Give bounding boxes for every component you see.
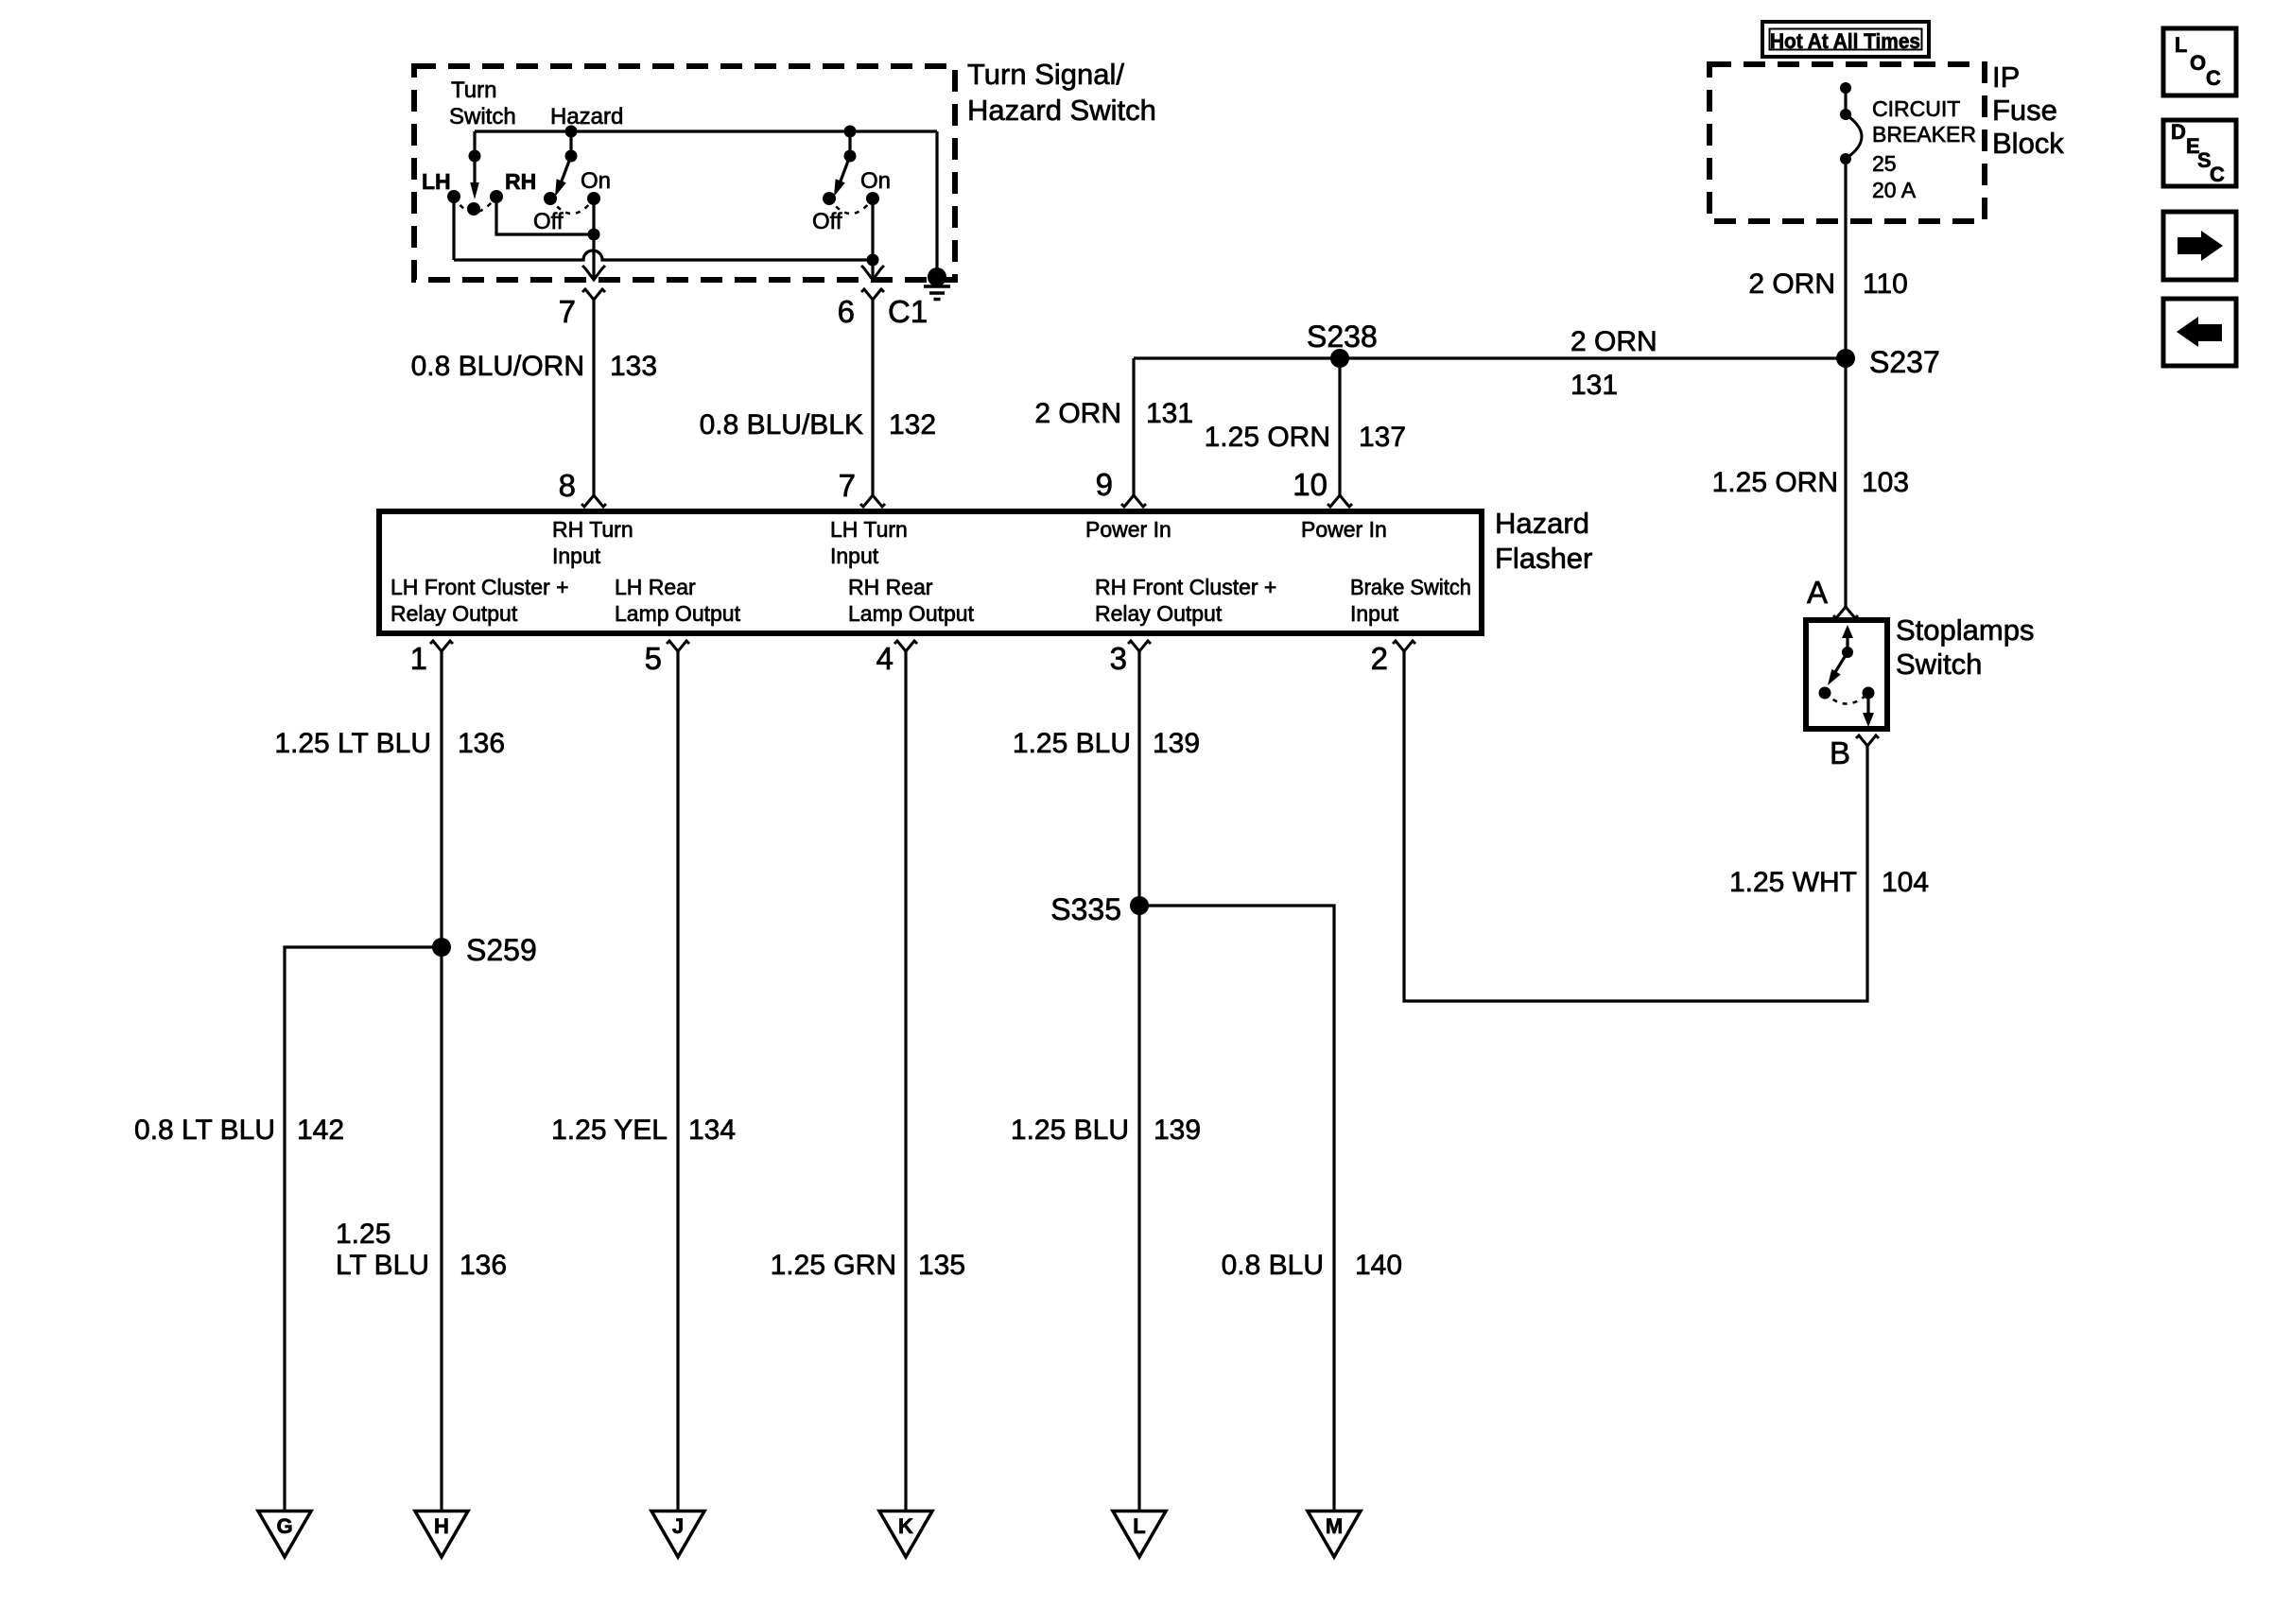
turn switch wiper feed [473,131,476,184]
exit open arrow pin 6 [861,266,884,280]
wire 140: 0.8 BLU S335 branch to M [1139,906,1334,1511]
DESC icon box [2163,120,2236,186]
svg-text:Switch: Switch [449,104,516,130]
svg-text:Power In: Power In [1301,517,1387,542]
right contact [1863,687,1875,700]
svg-text:C: C [2206,66,2221,90]
dashed travel arc [1825,693,1868,704]
svg-text:104: 104 [1882,867,1929,898]
connector B [1856,735,1879,746]
svg-text:139: 139 [1153,728,1200,759]
ground symbol [924,285,950,288]
LOC icon box [2163,28,2236,95]
On contact (left) [587,192,600,205]
svg-text:0.8 BLU: 0.8 BLU [1222,1250,1324,1281]
svg-text:S259: S259 [466,933,537,967]
svg-text:S238: S238 [1307,320,1378,354]
svg-text:A: A [1807,575,1828,610]
svg-text:S335: S335 [1050,892,1121,926]
svg-text:8: 8 [559,468,576,503]
svg-text:LT BLU: LT BLU [336,1250,429,1281]
stoplamp switch internals [1846,633,1848,652]
svg-text:1: 1 [410,641,427,676]
flasher top pin connectors 8,7,9,10 [581,495,606,507]
turn switch wiper contact [467,202,480,216]
svg-text:Hazard: Hazard [1495,507,1589,540]
svg-text:0.8 LT BLU: 0.8 LT BLU [134,1114,275,1146]
wire: bottom run with hop over pin7 wire [454,251,873,260]
svg-text:Turn: Turn [451,78,496,103]
wire 133: 0.8 BLU/ORN from switch 7 to flasher 8 [592,300,595,495]
svg-text:O: O [2190,51,2206,75]
svg-text:25: 25 [1872,151,1897,176]
connector triangle J [651,1512,704,1558]
splice S335 [1130,896,1149,915]
junction at right switch output [867,254,879,267]
circuit breaker 25 20A [1840,82,1851,94]
svg-text:Lamp Output: Lamp Output [615,601,741,626]
svg-text:137: 137 [1359,422,1406,453]
connector triangle L [1113,1512,1166,1558]
svg-text:139: 139 [1154,1114,1201,1146]
wire: On contact down to connector 7 [592,199,595,278]
svg-text:LH Front Cluster +: LH Front Cluster + [390,575,569,599]
wire: right On contact down to connector 6 [871,199,874,278]
svg-text:0.8 BLU/ORN: 0.8 BLU/ORN [411,351,584,382]
svg-text:LH Turn: LH Turn [830,517,908,542]
svg-text:IP: IP [1992,60,2020,94]
svg-text:0.8 BLU/BLK: 0.8 BLU/BLK [700,409,863,441]
On contact (right) [866,192,879,205]
svg-text:Input: Input [1350,601,1399,626]
svg-text:On: On [860,168,891,194]
svg-text:Block: Block [1992,127,2064,160]
svg-text:10: 10 [1293,467,1327,502]
svg-text:RH Rear: RH Rear [848,575,933,599]
exit open arrow pin 7 [582,266,605,280]
svg-text:Hazard: Hazard [550,104,623,130]
svg-text:2 ORN: 2 ORN [1748,268,1835,300]
svg-text:1.25: 1.25 [336,1218,390,1250]
connector triangle G [258,1512,311,1558]
connector C1 pin 6 [861,289,884,300]
svg-text:H: H [434,1514,449,1538]
connector triangle H [415,1512,468,1558]
Off contact (left) [544,192,557,205]
Off contact (right) [823,192,836,205]
connector C1 pin 7 [582,289,605,300]
arrow to B [1863,713,1874,727]
svg-text:7: 7 [839,468,856,503]
svg-text:Input: Input [552,544,601,568]
hazard switch pole (left) [565,126,578,138]
wire: LH contact drop [452,197,455,260]
svg-text:Turn Signal/: Turn Signal/ [967,58,1124,91]
wire 136: 1.25 LT BLU pin 1 to H [440,651,442,1511]
svg-text:140: 140 [1355,1250,1402,1281]
wire 131: 2 ORN S237 to S238 to flasher pin 9 [1134,356,1846,359]
svg-text:5: 5 [645,641,662,676]
wire 103: 1.25 ORN S237 to stoplamp switch A [1844,358,1847,607]
svg-text:131: 131 [1570,370,1618,401]
svg-text:CIRCUIT: CIRCUIT [1872,96,1960,121]
wire 137: 1.25 ORN S238 down to pin 10 [1338,358,1341,495]
svg-text:LH Rear: LH Rear [615,575,696,599]
svg-text:1.25 WHT: 1.25 WHT [1729,867,1857,898]
svg-text:142: 142 [297,1114,344,1146]
svg-text:135: 135 [918,1250,965,1281]
svg-text:1.25 ORN: 1.25 ORN [1205,422,1330,453]
svg-text:Stoplamps: Stoplamps [1896,613,2034,647]
svg-text:Switch: Switch [1896,648,1982,681]
wire: RH contact drop [496,197,594,234]
svg-text:On: On [581,168,611,194]
junction dot on wiper feed [469,150,481,163]
svg-text:Flasher: Flasher [1495,542,1592,575]
svg-text:110: 110 [1863,268,1908,300]
svg-text:BREAKER: BREAKER [1872,122,1976,147]
left contact [1819,687,1831,700]
splice S259 [432,938,451,957]
svg-text:136: 136 [458,728,505,759]
svg-text:K: K [898,1514,913,1538]
wire 134: 1.25 YEL pin 5 to J [676,651,679,1511]
svg-text:133: 133 [610,351,657,382]
wire 139: 1.25 BLU pin 3 to L [1137,651,1140,1511]
svg-text:L: L [2175,33,2187,57]
IP Fuse Block (dashed box) [1709,64,1985,221]
svg-text:RH Front Cluster +: RH Front Cluster + [1095,575,1276,599]
svg-text:B: B [1830,735,1850,770]
svg-text:Hazard Switch: Hazard Switch [967,94,1156,127]
svg-text:LH: LH [422,169,451,194]
svg-text:4: 4 [876,641,894,676]
svg-text:Input: Input [830,544,879,568]
wire: hazard feed bus (top horizontal inside switch) [475,130,937,132]
svg-text:131: 131 [1146,398,1193,429]
splice S237 [1836,349,1855,368]
svg-text:103: 103 [1862,467,1909,498]
svg-text:Hot At All Times: Hot At All Times [1770,29,1920,53]
wire 110: 2 ORN breaker to S237 [1844,159,1847,358]
junction RH to hazard-on wire [588,229,600,241]
LH contact [447,190,460,203]
svg-text:C1: C1 [888,294,928,329]
switch lever (left) [561,156,571,183]
svg-text:1.25 GRN: 1.25 GRN [771,1250,896,1281]
RH contact [490,190,503,203]
svg-text:RH Turn: RH Turn [552,517,633,542]
wire: branch down to pin 9 [1132,358,1135,495]
Hot At All Times banner [1762,22,1929,57]
svg-text:2 ORN: 2 ORN [1570,326,1657,357]
svg-text:Fuse: Fuse [1992,94,2057,127]
Hazard Flasher box [379,511,1482,633]
svg-text:1.25 ORN: 1.25 ORN [1712,467,1838,498]
wire 104: pin 2 to stoplamps switch B [1404,651,1867,1001]
svg-text:G: G [276,1514,292,1538]
svg-text:1.25 LT BLU: 1.25 LT BLU [274,728,431,759]
svg-text:Power In: Power In [1085,517,1171,542]
svg-text:J: J [672,1514,684,1538]
ground connection dot [928,268,946,286]
Stoplamps Switch box [1806,620,1887,729]
dashed travel arc (left) [550,199,594,214]
svg-text:Relay Output: Relay Output [390,601,518,626]
svg-text:Off: Off [533,209,564,234]
connector triangle K [879,1512,932,1558]
svg-text:RH: RH [505,169,536,194]
flasher bottom pin connectors 1,5,4,3,2 [430,641,453,651]
svg-text:L: L [1133,1514,1145,1538]
svg-text:3: 3 [1110,641,1127,676]
svg-text:Lamp Output: Lamp Output [848,601,975,626]
connector triangle M [1308,1512,1361,1558]
right arrow icon box [2163,212,2236,280]
connector A [1833,607,1858,618]
svg-text:134: 134 [688,1114,736,1146]
svg-text:M: M [1326,1514,1343,1538]
stoplamp lever [1835,652,1848,672]
svg-text:136: 136 [460,1250,507,1281]
svg-text:Relay Output: Relay Output [1095,601,1223,626]
splice S238 [1330,349,1349,368]
wire 142: 0.8 LT BLU S259 branch to G [285,947,442,1511]
svg-text:2 ORN: 2 ORN [1034,398,1121,429]
svg-text:1.25 BLU: 1.25 BLU [1013,728,1131,759]
dashed travel arc (right) [829,199,873,214]
switch lever (right) [840,156,850,183]
svg-text:S237: S237 [1869,345,1940,379]
svg-text:20 A: 20 A [1872,178,1917,202]
svg-text:132: 132 [889,409,936,441]
svg-text:2: 2 [1371,641,1388,676]
svg-text:D: D [2171,120,2186,144]
svg-text:7: 7 [559,294,576,329]
svg-text:9: 9 [1096,467,1113,502]
svg-text:Brake Switch: Brake Switch [1350,575,1471,599]
dashed wiper travel arc LH-RH [454,197,496,213]
wire 135: 1.25 GRN pin 4 to K [904,651,907,1511]
hazard switch pole (right) [844,126,857,138]
svg-text:1.25 BLU: 1.25 BLU [1011,1114,1129,1146]
wire: bus return to ground [935,131,938,272]
svg-text:1.25 YEL: 1.25 YEL [551,1114,668,1146]
svg-text:C: C [2210,163,2225,186]
wire 132: 0.8 BLU/BLK from switch 6 to flasher 7 [871,300,874,495]
svg-text:Off: Off [812,209,842,234]
Turn Signal / Hazard Switch component (dashed box) [414,66,955,280]
svg-text:6: 6 [838,294,855,329]
left arrow icon box [2163,299,2236,366]
